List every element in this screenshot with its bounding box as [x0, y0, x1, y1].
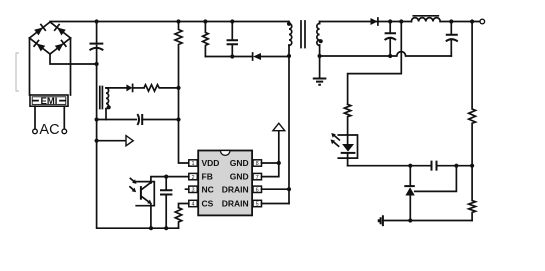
diode D6 output rectifier	[371, 18, 378, 25]
AC input terminals	[33, 106, 67, 138]
wire: secondary top rail	[320, 21, 482, 23]
capacitor C4 output electrolytic 2	[446, 22, 458, 57]
auxiliary winding of transformer	[100, 87, 111, 120]
svg-text:3: 3	[191, 188, 194, 194]
primary ground arrow (open triangle)	[97, 136, 134, 146]
wire: aux return with bypass	[97, 119, 137, 121]
resistor R2 aux series	[144, 85, 179, 91]
pin 5 DRAIN	[253, 200, 262, 207]
capacitor C6 compensation	[432, 161, 437, 171]
svg-text:CS: CS	[202, 199, 214, 209]
EMI filter box	[30, 95, 68, 107]
pin 8 GND	[253, 160, 262, 167]
bridge rectifier BR1 diamond	[30, 22, 71, 54]
wire: primary ground vertical and bottom rail	[97, 64, 179, 228]
svg-text:7: 7	[256, 175, 259, 181]
wire: feedback supply tap	[348, 22, 402, 105]
svg-text:FB: FB	[202, 172, 213, 182]
resistor R8 divider lower	[469, 166, 476, 221]
capacitor C5 output electrolytic 1	[385, 22, 396, 57]
wire: clamp bottom + diode D5	[205, 53, 289, 60]
transformer T1 primary winding	[287, 22, 292, 46]
pin 3 NC	[186, 186, 198, 193]
svg-text:AC: AC	[39, 122, 59, 138]
svg-text:2: 2	[191, 175, 194, 181]
wire: pin2 FB to optocoupler	[151, 177, 189, 182]
resistor R3 clamp	[203, 22, 209, 57]
wire: bridge negative output to ground node	[50, 54, 97, 64]
transformer core	[301, 21, 305, 48]
resistor R1 startup + VDD line	[175, 22, 190, 164]
output terminal	[480, 19, 485, 24]
capacitor C3 clamp	[227, 22, 238, 57]
primary ground arrow up (open triangle)	[273, 123, 285, 131]
wire: compensation node	[348, 165, 473, 167]
IC U1 body	[198, 151, 252, 216]
wire: pin4 CS lead	[179, 204, 189, 208]
capacitor C2 VDD bypass	[137, 114, 178, 125]
svg-text:6: 6	[256, 188, 259, 194]
optocoupler U2 LED side	[331, 133, 358, 166]
faint bracket artifact at left edge	[16, 53, 19, 91]
wire: aux winding top to VDD diode	[106, 87, 126, 89]
resistor R5 LED series	[344, 104, 350, 135]
svg-text:8: 8	[256, 161, 259, 167]
transformer T1 secondary winding	[317, 22, 323, 57]
svg-text:NC: NC	[202, 184, 214, 194]
wire: GND pins tie	[262, 131, 279, 177]
svg-text:1: 1	[191, 161, 194, 167]
pin 2 FB	[189, 173, 198, 180]
earth ground secondary	[313, 56, 327, 85]
wire: main top rail (bulk + rail)	[50, 21, 289, 23]
svg-text:DRAIN: DRAIN	[222, 184, 249, 194]
svg-text:5: 5	[256, 202, 259, 208]
wire: TL431 ref to divider tap	[415, 166, 457, 192]
ground left-pointing secondary small	[379, 215, 472, 226]
wire: drain node vertical	[288, 45, 290, 204]
pin 1 VDD	[189, 160, 198, 167]
pin 4 CS	[189, 200, 198, 207]
diode D2 aux rectifier	[126, 84, 144, 91]
resistor R7 divider upper	[469, 22, 476, 166]
capacitor C1 bulk electrolytic	[90, 22, 104, 65]
pin 7 GND	[253, 173, 262, 180]
svg-text:EMI: EMI	[41, 96, 58, 107]
wire: DRAIN pins to transformer	[262, 189, 290, 203]
wire: secondary return with hopover	[320, 52, 452, 56]
svg-text:GND: GND	[230, 158, 249, 168]
svg-text:DRAIN: DRAIN	[222, 199, 249, 209]
svg-text:4: 4	[191, 202, 194, 208]
svg-text:VDD: VDD	[202, 158, 220, 168]
wire: bridge AC legs to EMI box	[30, 38, 71, 95]
shunt regulator U3 TL431	[404, 166, 415, 221]
inductor L2 output filter	[411, 16, 440, 22]
capacitor C7 FB filter	[160, 177, 172, 229]
resistor R4 current sense	[175, 208, 181, 229]
pin 6 DRAIN	[253, 186, 262, 193]
svg-text:GND: GND	[230, 172, 249, 182]
optocoupler U2 phototransistor side	[130, 178, 154, 228]
